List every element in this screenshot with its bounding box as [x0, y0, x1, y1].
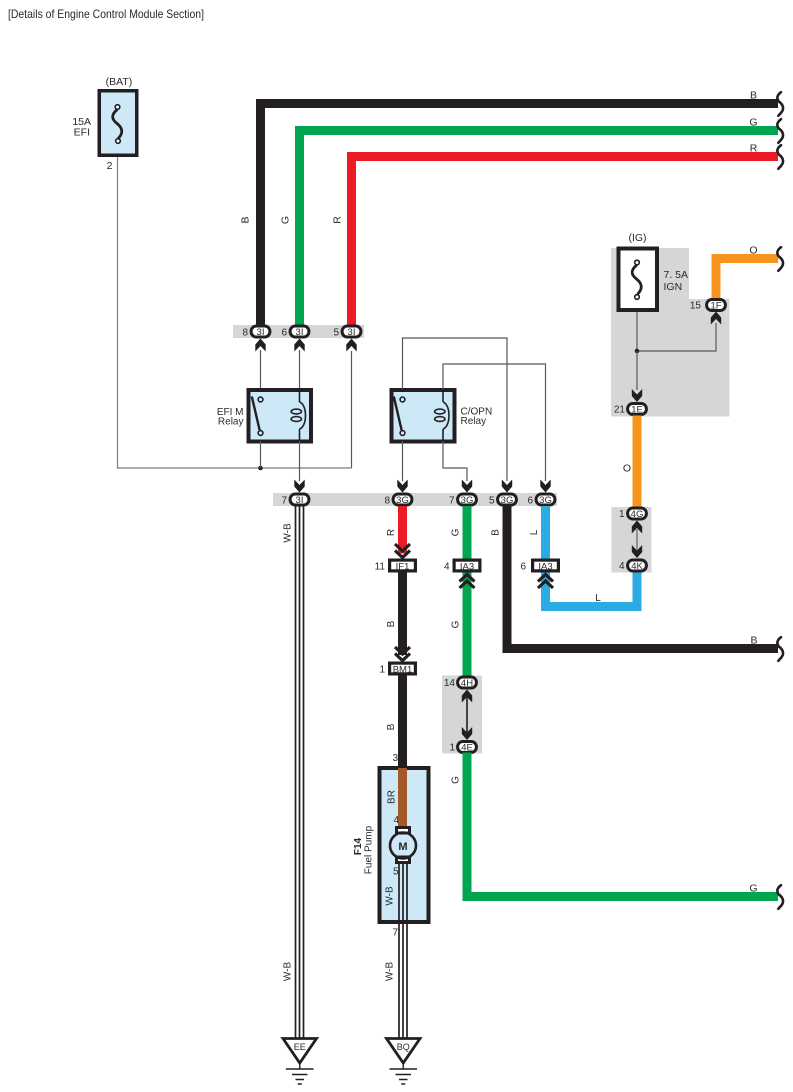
pin 4 label (IA3) — [444, 562, 450, 573]
wire EFI relay coil bottom to 7 3I (thin) — [299, 441, 301, 481]
svg-text:3I: 3I — [348, 327, 356, 338]
relay C/OPN coil — [435, 390, 449, 441]
svg-text:(IG): (IG) — [628, 232, 646, 244]
connector 1 (4E) — [458, 742, 477, 754]
wire W-B below motor — [399, 863, 407, 1039]
label L (rotated) — [529, 529, 540, 535]
svg-text:L: L — [595, 593, 601, 604]
label G (rotated, upper) — [451, 528, 462, 536]
label B (rotated, lower) — [386, 723, 397, 730]
arrow up into 5 3I — [346, 339, 356, 352]
svg-text:6: 6 — [527, 496, 533, 507]
wire R (red) 8 3G to IF1 — [398, 506, 407, 554]
svg-text:1: 1 — [449, 743, 455, 754]
svg-text:B: B — [386, 723, 397, 730]
svg-text:7: 7 — [392, 928, 398, 939]
label R (rotated) — [386, 529, 397, 536]
relay EFI M switch — [252, 397, 263, 436]
wire G green 7 3G to IA3 — [463, 506, 472, 572]
label R (top right) — [750, 143, 758, 155]
svg-text:3I: 3I — [257, 327, 265, 338]
wire L blue IA3 to 4K — [546, 572, 638, 607]
svg-text:BM1: BM1 — [393, 664, 413, 675]
break symbol wire R — [777, 145, 783, 169]
wire G thick (green) — [300, 131, 779, 326]
svg-text:O: O — [623, 463, 631, 475]
wire IG fuse to junction (thin) — [636, 312, 638, 351]
label W-B below pump — [385, 962, 396, 982]
svg-text:1E: 1E — [631, 405, 643, 416]
pin 7 label (pump bottom) — [392, 928, 398, 939]
connector 8 (3I) — [251, 326, 270, 338]
svg-text:[Details of Engine Control Mod: [Details of Engine Control Module Sectio… — [8, 8, 204, 21]
svg-text:G: G — [280, 216, 292, 224]
arrow up into 6 3I — [294, 339, 304, 352]
arrow down into 6 3G — [540, 480, 550, 493]
arrow down into 8 3G — [397, 480, 407, 493]
fuse 7.5A IGN (IG) — [619, 249, 658, 311]
arrow up into 4G — [632, 521, 642, 534]
motor M bottom bracket — [397, 857, 410, 863]
wire W-B left (white-black) — [296, 506, 304, 1038]
svg-text:B: B — [386, 620, 397, 627]
svg-text:4: 4 — [444, 562, 450, 573]
ground BQ — [387, 1039, 421, 1085]
label B (rotated, on vertical wire) — [240, 216, 252, 223]
label EFI M Relay — [217, 407, 244, 428]
wire 4H to 4E (thin) — [466, 697, 468, 733]
svg-text:B: B — [750, 635, 757, 647]
connector 4 (4K) — [628, 560, 647, 572]
label G (rotated, mid) — [451, 620, 462, 628]
label F14 Fuel Pump — [353, 825, 375, 874]
svg-text:3I: 3I — [296, 327, 304, 338]
svg-text:6: 6 — [520, 562, 526, 573]
wire B black IF1 to BM1 — [398, 573, 407, 656]
wire C/OPN switch bottom to 8 3G (thin) — [402, 441, 404, 481]
arrow down into 4K — [632, 545, 642, 558]
svg-text:B: B — [491, 529, 502, 536]
label B (top right) — [750, 90, 757, 102]
svg-text:15: 15 — [690, 301, 702, 312]
connector 1 (4G) — [628, 508, 647, 520]
svg-text:5: 5 — [489, 496, 495, 507]
svg-text:8: 8 — [242, 328, 248, 339]
svg-text:3G: 3G — [461, 495, 474, 506]
connector 7 (3G) — [458, 494, 477, 506]
break symbol wire B — [777, 92, 783, 116]
connector 6 (3I) — [290, 326, 309, 338]
svg-text:BQ: BQ — [397, 1042, 410, 1052]
pin 5 label — [333, 328, 339, 339]
break symbol wire G lower — [777, 885, 783, 909]
connector 5 (3I) — [342, 326, 361, 338]
label G (right exit) — [749, 883, 757, 895]
ground EE — [283, 1039, 317, 1085]
svg-text:G: G — [451, 776, 462, 784]
svg-text:R: R — [750, 143, 758, 155]
wire R thick (red) — [352, 157, 779, 326]
pin 3 label (fuel pump) — [392, 753, 398, 764]
label B (rotated, column) — [491, 529, 502, 536]
svg-text:F14: F14 — [353, 837, 364, 855]
connector IA3 (blue) — [533, 560, 559, 572]
pin 7 label (3I) — [281, 496, 287, 507]
wire L blue 6 3G to IA3 — [541, 506, 550, 572]
motor M circle — [390, 833, 416, 859]
svg-text:14: 14 — [444, 678, 456, 689]
wire B black BM1 to fuel pump — [398, 676, 407, 769]
pin 8 label (3G) — [384, 496, 390, 507]
svg-text:11: 11 — [375, 562, 386, 573]
title — [8, 8, 204, 21]
pin 1 label (4G) — [619, 509, 625, 520]
connector IF1 — [390, 560, 416, 572]
chevron arrows out of IA3 (green) — [460, 575, 475, 589]
label O (top right) — [749, 245, 757, 257]
arrow down into 5 3G — [502, 480, 512, 493]
pin 7 label (3G) — [449, 496, 455, 507]
label W-B (upper) — [283, 523, 294, 543]
svg-text:EE: EE — [294, 1042, 306, 1052]
svg-text:3G: 3G — [396, 495, 409, 506]
svg-text:7: 7 — [449, 496, 455, 507]
arrow down into 7 3G — [462, 480, 472, 493]
label G (rotated, on vertical wire) — [280, 216, 292, 224]
svg-text:6: 6 — [281, 328, 287, 339]
svg-text:Fuel Pump: Fuel Pump — [364, 825, 375, 874]
wire 4G to 4K (thin) — [636, 528, 638, 551]
gray strip connector row 3I — [233, 325, 364, 338]
svg-text:BR: BR — [387, 790, 398, 804]
svg-text:4K: 4K — [631, 561, 643, 572]
svg-text:8: 8 — [384, 496, 390, 507]
svg-text:4E: 4E — [461, 743, 473, 754]
label C/OPN Relay — [461, 407, 493, 428]
svg-text:M: M — [398, 841, 407, 853]
label G (rotated, lower) — [451, 776, 462, 784]
svg-text:B: B — [750, 90, 757, 102]
svg-text:4H: 4H — [461, 678, 473, 689]
svg-text:L: L — [529, 529, 540, 535]
gray shading IG section — [611, 248, 730, 417]
label (BAT) — [106, 76, 133, 88]
pin 21 label (1E) — [614, 405, 626, 416]
pin 8 label — [242, 328, 248, 339]
fuse symbol BAT — [113, 105, 122, 144]
svg-text:R: R — [332, 216, 344, 224]
wire B thick (battery feed, black) — [261, 104, 779, 326]
svg-text:1F: 1F — [710, 301, 721, 312]
svg-text:7. 5A: 7. 5A — [664, 269, 689, 281]
relay EFI M coil — [291, 390, 305, 441]
motor M top bracket — [397, 828, 410, 834]
svg-text:1: 1 — [379, 665, 385, 676]
label L (horizontal segment) — [595, 593, 601, 604]
svg-text:5: 5 — [333, 328, 339, 339]
wire junction to 1E (thin) — [636, 351, 638, 390]
junction dot IG — [635, 349, 640, 354]
svg-text:Relay: Relay — [461, 416, 487, 427]
connector 21 (1E) — [628, 404, 647, 416]
svg-text:W-B: W-B — [283, 523, 294, 543]
junction dot EFI relay / BAT line — [258, 466, 263, 471]
svg-text:G: G — [749, 883, 757, 895]
svg-text:W-B: W-B — [385, 962, 396, 982]
wire EFI relay coil top to 6 3I (thin) — [299, 350, 301, 389]
fuse 15A EFI (BAT) — [99, 91, 137, 156]
svg-text:IA3: IA3 — [460, 561, 474, 572]
svg-text:3: 3 — [392, 753, 398, 764]
svg-text:G: G — [451, 528, 462, 536]
label 7.5A IGN — [664, 269, 689, 293]
pin 4 label (4K) — [619, 561, 625, 572]
svg-text:4: 4 — [393, 815, 399, 826]
break symbol wire G — [777, 119, 783, 143]
svg-text:R: R — [386, 529, 397, 536]
svg-text:7: 7 — [281, 496, 287, 507]
relay C/OPN switch — [394, 397, 405, 436]
svg-text:4: 4 — [619, 561, 625, 572]
svg-text:IF1: IF1 — [396, 561, 410, 572]
wire G green 4E to right edge — [467, 753, 778, 897]
pin 1 label (BM1) — [379, 665, 385, 676]
arrow down into 7 3I — [294, 480, 304, 493]
fuel pump F14 box — [380, 768, 429, 922]
wire C/OPN switch top to 5 3G (thin) — [403, 338, 508, 481]
gray strip connector row 3G — [273, 493, 557, 506]
break symbol wire B lower — [777, 637, 783, 661]
arrow down into 4E — [462, 727, 472, 740]
svg-text:4G: 4G — [631, 509, 644, 520]
wire O orange 1E to 4G — [633, 416, 642, 509]
chevron arrows out of IA3 (blue) — [538, 575, 553, 589]
label B (right exit) — [750, 635, 757, 647]
gray box connectors 4G-4K — [612, 507, 652, 573]
relay C/OPN box — [392, 390, 455, 442]
svg-text:21: 21 — [614, 405, 626, 416]
svg-text:W-B: W-B — [283, 962, 294, 982]
wire junction to connector 5 3I (thin) — [351, 351, 353, 468]
svg-text:1: 1 — [619, 509, 625, 520]
svg-text:G: G — [749, 117, 757, 129]
label B (rotated) — [386, 620, 397, 627]
pin 1 label (4E) — [449, 743, 455, 754]
chevron arrows into BM1 — [395, 647, 410, 661]
label W-B (lower) — [283, 962, 294, 982]
connector 6 (3G) — [536, 494, 555, 506]
label (IG) — [628, 232, 646, 244]
break symbol wire O — [777, 247, 783, 271]
label BR (rotated) — [387, 790, 398, 804]
label 15A EFI — [72, 116, 91, 139]
wire C/OPN coil top to 6 3G (thin) — [443, 364, 546, 481]
wire O orange 1F to right edge — [716, 259, 778, 300]
chevron arrows into IF1 — [395, 544, 410, 558]
connector 14 (4H) — [458, 677, 477, 689]
svg-text:2: 2 — [107, 160, 113, 172]
connector 8 (3G) — [393, 494, 412, 506]
svg-text:O: O — [749, 245, 757, 257]
wire EFI relay switch bottom to junction (thin) — [260, 441, 262, 468]
pin 11 label — [375, 562, 386, 573]
fuse symbol IG — [632, 260, 641, 299]
svg-text:5: 5 — [393, 867, 399, 878]
pin 2 (BAT fuse) — [107, 160, 113, 172]
pin 14 label (4H) — [444, 678, 456, 689]
wire G green IA3 to 4H — [463, 573, 472, 678]
arrow up into 4H — [462, 690, 472, 703]
svg-text:EFI: EFI — [74, 127, 90, 139]
pin 5 label (3G) — [489, 496, 495, 507]
label W-B inside pump — [385, 886, 396, 906]
pin 15 label (1F) — [690, 301, 702, 312]
connector BM1 — [390, 663, 416, 675]
svg-text:3G: 3G — [501, 495, 514, 506]
label R (rotated, on vertical wire) — [332, 216, 344, 224]
svg-text:IGN: IGN — [664, 281, 683, 293]
wire BAT fuse to junction (thin) — [118, 157, 352, 468]
connector 5 (3G) — [498, 494, 517, 506]
svg-text:(BAT): (BAT) — [106, 76, 133, 88]
arrow down into 1E — [632, 389, 642, 402]
connector 15 (1F) — [707, 300, 726, 312]
wire B black 5 3G to right edge — [507, 506, 778, 649]
svg-text:W-B: W-B — [385, 886, 396, 906]
svg-text:3I: 3I — [296, 495, 304, 506]
svg-text:Relay: Relay — [218, 417, 244, 428]
label O (rotated column) — [623, 463, 631, 475]
gray box connectors 4H-4E — [442, 676, 482, 754]
arrow up into 8 3I — [255, 339, 265, 352]
svg-text:G: G — [451, 620, 462, 628]
wire C/OPN coil bottom to 7 3G (thin) — [443, 441, 467, 481]
svg-text:IA3: IA3 — [538, 561, 552, 572]
relay EFI M box — [249, 390, 312, 442]
svg-text:3G: 3G — [539, 495, 552, 506]
wire EFI relay switch top to 8 3I (thin) — [260, 350, 262, 389]
pin 6 label (3G) — [527, 496, 533, 507]
wire junction to 1F (thin) — [637, 323, 716, 351]
pin 5 label (motor) — [393, 867, 399, 878]
label G (top right) — [749, 117, 757, 129]
connector IA3 (green) — [454, 560, 480, 572]
pin 4 label (motor) — [393, 815, 399, 826]
connector 7 (3I) — [290, 494, 309, 506]
svg-text:B: B — [240, 216, 252, 223]
arrow up into 1F — [711, 312, 721, 325]
wire BR brown inside pump — [398, 768, 407, 827]
pin 6 label — [281, 328, 287, 339]
pin 6 label (IA3 blue) — [520, 562, 526, 573]
